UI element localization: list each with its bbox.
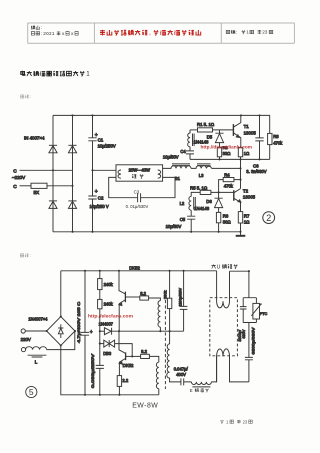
transistor Q1 DK52 (upper)	[119, 271, 125, 294]
wire half-bridge midpoint vertical	[240, 159, 242, 188]
svg-text:,: ,	[149, 30, 151, 37]
svg-text:400V: 400V	[176, 372, 186, 377]
svg-text:8.2: 8.2	[141, 349, 147, 354]
header cell: 时间 2021年x月x日	[31, 32, 34, 36]
capacitor 2200p/630V	[180, 271, 188, 331]
transformer secondary winding (lamp heating)	[191, 382, 211, 385]
svg-text:C3: C3	[134, 189, 140, 194]
resistor 390k	[169, 271, 171, 298]
node AC top / bridge left leg	[52, 169, 54, 171]
svg-text:8.2: 8.2	[140, 291, 146, 296]
svg-text:0.047μ/: 0.047μ/	[174, 367, 189, 372]
resistor R3 1ohm	[238, 147, 242, 156]
svg-text:C1: C1	[98, 137, 104, 142]
svg-text::: :	[41, 25, 42, 30]
lamp bottom filament	[217, 349, 249, 382]
svg-text:0.033μ/250V: 0.033μ/250V	[90, 353, 95, 388]
svg-text:C2: C2	[98, 196, 104, 201]
resistor R2 33ohm	[217, 147, 221, 156]
svg-text:1N4007: 1N4007	[99, 322, 114, 327]
PTC thermistor	[255, 298, 257, 323]
wire bridge right leg	[72, 115, 74, 231]
svg-text:10μ/50V: 10μ/50V	[163, 154, 179, 159]
node C1 top rail	[91, 114, 93, 116]
label 双U型灯管	[212, 264, 216, 268]
feedback winding (upper, to Q1 base)	[158, 301, 160, 327]
svg-text:1: 1	[86, 71, 90, 78]
terminal AC neutral	[21, 348, 25, 352]
svg-text:4.7μ/400V 105 C: 4.7μ/400V 105 C	[76, 302, 81, 343]
wire L to bridge right corner	[47, 331, 75, 350]
svg-text:http.//elecfans.com: http.//elecfans.com	[88, 313, 133, 318]
wire bottom rail (schematic 2)	[61, 345, 159, 394]
svg-text:EW-8W: EW-8W	[132, 403, 158, 410]
svg-text:E: E	[190, 388, 193, 393]
wire lamp top return segment	[230, 270, 249, 272]
resistor R1 5.1ohm	[198, 128, 213, 132]
node C5 bottom rail	[190, 231, 192, 233]
transistor T1 13005	[232, 124, 234, 136]
svg-text:DK52: DK52	[129, 265, 140, 270]
svg-text:+: +	[95, 189, 98, 195]
svg-text:DB3: DB3	[103, 351, 112, 356]
node 0.033u bottom rail	[99, 394, 101, 396]
svg-text:PTC: PTC	[260, 312, 268, 316]
svg-text:R1 5. 1Ω: R1 5. 1Ω	[197, 122, 215, 127]
node bridge bottom corner	[60, 344, 62, 346]
node lamp return to PTC	[248, 270, 250, 272]
wire bottom rail	[53, 231, 241, 233]
svg-text:DK52: DK52	[123, 363, 134, 368]
lamp filament right	[158, 170, 161, 178]
svg-text:23: 23	[262, 30, 267, 35]
feedback winding L2 (T2 base drive)	[189, 196, 191, 210]
diac DB3	[100, 343, 104, 345]
double-U lamp tube (dashed envelope)	[210, 298, 238, 356]
figure label 图片： (1)	[21, 95, 24, 98]
capacitor C5 10u/50V	[187, 210, 195, 232]
capacitor C1 10u/250V	[88, 115, 96, 170]
node 390k top rail	[169, 270, 171, 272]
svg-text:IN 4007×4: IN 4007×4	[24, 135, 45, 140]
svg-text:L3: L3	[199, 173, 204, 178]
svg-text:470k: 470k	[273, 140, 283, 145]
diode D2 (1N4007)	[68, 144, 76, 146]
node DB3 left	[99, 343, 101, 345]
node DB3 to Q2 base	[131, 355, 133, 357]
wire AC input top	[20, 169, 73, 171]
svg-text:D5: D5	[207, 134, 213, 139]
fuse BX	[20, 185, 32, 187]
node C6 top rail	[258, 114, 260, 116]
capacitor C4 10u/50V	[186, 147, 194, 160]
node upper winding to midpoint line	[159, 330, 161, 332]
svg-text:1N4007×4: 1N4007×4	[28, 316, 48, 321]
electrolytic capacitor 4.7u/400V	[81, 271, 89, 395]
wire top DC rail (schematic 2)	[61, 270, 217, 272]
wire L3 to midpoint	[212, 167, 241, 169]
svg-text:C: C	[13, 168, 17, 174]
footer page number 第1页 共23页	[220, 420, 223, 423]
bridge rectifier 1N4007x4	[60, 271, 62, 317]
feedback winding (lower, to Q2 base)	[156, 362, 158, 388]
transformer winding B1 (main)	[163, 166, 191, 169]
resistor 8.2 (Q1 base)	[140, 296, 149, 300]
svg-text:390k: 390k	[163, 291, 168, 299]
svg-text:20W—40W: 20W—40W	[129, 168, 150, 173]
terminal AC live	[21, 329, 25, 333]
node bridge top corner	[60, 316, 62, 318]
node 2200p top rail	[183, 270, 185, 272]
svg-text:6800p/630V: 6800p/630V	[251, 327, 256, 355]
feedback winding on B1 (T1 base drive)	[188, 130, 190, 147]
svg-text:3. 3n/630V: 3. 3n/630V	[246, 169, 266, 174]
inductor L3	[191, 166, 212, 169]
resistor 240k (upper)	[99, 271, 101, 279]
capacitor C2 10u/250V	[88, 170, 96, 232]
wire lamp feed from C1/C2 midpoint	[93, 169, 117, 171]
svg-text:2021: 2021	[43, 31, 55, 36]
svg-text:10μ/250V: 10μ/250V	[98, 143, 116, 148]
svg-text:240k: 240k	[104, 282, 114, 287]
svg-text:33Ω: 33Ω	[223, 151, 231, 156]
circled figure number 2	[263, 212, 275, 224]
node bridge left corner	[46, 330, 48, 332]
diode 1N4007 (discharge)	[100, 330, 105, 332]
transformer primary winding	[167, 331, 170, 378]
svg-text:C4: C4	[180, 149, 186, 154]
svg-text:470k: 470k	[224, 183, 234, 188]
header table frame	[28, 23, 295, 43]
svg-text:R8: R8	[273, 134, 279, 139]
node Q1 collector top rail	[118, 270, 120, 272]
capacitor 0.033u/250V	[96, 344, 104, 395]
svg-text:2: 2	[266, 213, 271, 223]
capacitor 0.047u/400V	[181, 378, 192, 385]
svg-text:220V: 220V	[21, 337, 31, 342]
node lamp circuit to half-bridge midpoint	[239, 167, 241, 169]
diode D3 (1N4007)	[49, 200, 57, 202]
svg-text:13005: 13005	[243, 195, 256, 200]
figure label 图片： (2)	[20, 254, 23, 257]
wire AC live to bridge	[25, 330, 46, 332]
svg-text:R5 5. 1Ω: R5 5. 1Ω	[190, 185, 208, 190]
diode D4 (1N4007)	[68, 200, 76, 202]
node bridge top left	[71, 114, 73, 116]
svg-text:BX: BX	[34, 190, 40, 195]
capacitor 3300p/630V	[240, 298, 247, 323]
svg-text:630V: 630V	[242, 329, 246, 338]
node 240k top rail	[99, 270, 101, 272]
node 4.7u top rail	[84, 270, 86, 272]
svg-text:R4: R4	[224, 172, 230, 177]
header cell: 编号	[31, 26, 35, 30]
svg-text:~220V: ~220V	[12, 175, 25, 180]
capacitor 6800p/630V	[245, 323, 253, 382]
svg-text:D6: D6	[206, 199, 212, 204]
svg-text:30Ω: 30Ω	[223, 219, 231, 224]
diode D6 1N4148	[215, 192, 223, 198]
svg-text:2.2: 2.2	[122, 378, 128, 383]
svg-text:R7: R7	[244, 214, 250, 219]
lamp top filament	[217, 271, 230, 308]
node AC bottom / bridge right leg	[71, 185, 73, 187]
svg-text:1Ω: 1Ω	[244, 219, 249, 224]
node T2 emitter bottom rail	[239, 231, 241, 233]
transistor Q2 DK52 (lower)	[119, 331, 126, 353]
svg-text:C6: C6	[253, 164, 259, 169]
transistor T2 13005	[233, 190, 235, 201]
svg-text:C5: C5	[180, 217, 186, 222]
wire midpoint node line	[119, 330, 184, 332]
node 390k / primary top	[169, 330, 171, 332]
svg-text:1Ω: 1Ω	[244, 151, 249, 156]
capacitor C6 3.3n/630V	[255, 115, 263, 159]
svg-text:10μ/250 V: 10μ/250 V	[90, 204, 109, 209]
transformer core (dashed)	[164, 300, 166, 389]
resistor R6 30ohm	[216, 212, 220, 222]
node R4 tap	[239, 179, 241, 181]
wire lamp lower loop / capacitor C3 0.01u/630V	[109, 177, 175, 202]
resistor 8.2 (Q2 base)	[141, 354, 150, 358]
svg-text:10μ/50V: 10μ/50V	[166, 224, 182, 229]
node R4 to base wire	[218, 191, 220, 193]
node C6 on mid rail	[258, 158, 260, 160]
resistor R7 1ohm	[238, 212, 242, 223]
svg-text:5: 5	[29, 387, 34, 397]
node C1/C2 midpoint	[91, 169, 93, 171]
header red motto 书山有路勤为径，学海无涯苦作舟	[100, 30, 105, 35]
svg-text:C: C	[13, 184, 17, 190]
resistor 2.2 (Q2 emitter)	[117, 376, 121, 387]
svg-text:23: 23	[243, 419, 248, 424]
svg-text:0. 01μ/630V: 0. 01μ/630V	[126, 204, 149, 209]
wire bridge left leg	[52, 115, 54, 231]
ground symbol	[240, 232, 242, 236]
resistor R8 470k	[269, 115, 271, 133]
lamp filament left	[118, 170, 121, 178]
page title 电子镇流器线路图大全1	[21, 71, 26, 76]
node R2 on mid rail	[218, 158, 220, 160]
svg-text::: :	[30, 253, 31, 258]
PTC and 3300p parallel block	[248, 271, 250, 298]
svg-text:T1: T1	[244, 124, 250, 129]
node R3/T2 on mid rail	[239, 158, 241, 160]
svg-text:U: U	[217, 265, 221, 271]
node R6 bottom rail	[218, 231, 220, 233]
node T1 collector on top rail	[240, 114, 242, 116]
header cell: 页码 第1页 共23页	[226, 30, 230, 33]
node diode cathode / midpoint line	[118, 330, 120, 332]
svg-text:2200p/630V: 2200p/630V	[178, 287, 182, 306]
svg-text:240k: 240k	[104, 302, 114, 307]
svg-text:L2: L2	[180, 201, 185, 206]
wire top DC rail	[53, 114, 270, 116]
label 灯管	[132, 174, 136, 178]
fluorescent lamp 20W-40W 灯管	[116, 165, 163, 181]
resistor R5 5.1ohm	[200, 190, 211, 194]
svg-text::: :	[30, 94, 31, 99]
node bottom rail junctions	[71, 231, 73, 233]
node diode anode	[99, 330, 101, 332]
svg-text:R6: R6	[223, 214, 229, 219]
resistor R4 470k	[223, 178, 234, 182]
bridge inner diode symbol	[58, 324, 63, 338]
svg-text:T2: T2	[243, 188, 249, 193]
node bridge right corner	[74, 330, 76, 332]
resistor 240k (lower)	[99, 290, 101, 300]
diode D1 (1N4007)	[49, 144, 57, 146]
node 2.2 bottom rail	[118, 394, 120, 396]
node 4.7u bottom rail	[84, 394, 86, 396]
svg-text:1N4148: 1N4148	[194, 206, 210, 211]
svg-text:+: +	[90, 330, 93, 336]
svg-text::: :	[41, 31, 42, 36]
svg-text::: :	[236, 31, 237, 36]
diode D5 1N4148	[215, 130, 223, 133]
svg-text:13005: 13005	[244, 131, 257, 136]
wire emitter mid rail	[190, 158, 270, 160]
svg-text:B1: B1	[175, 176, 181, 181]
circled figure number 5	[26, 386, 37, 397]
svg-text:http.//dianzidianlu.com: http.//dianzidianlu.com	[201, 145, 253, 150]
filter inductor L	[26, 347, 47, 350]
